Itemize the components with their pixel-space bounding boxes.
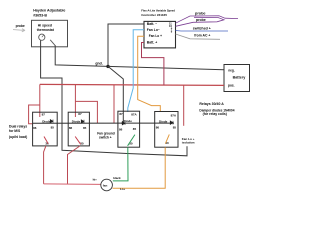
wire thermostat left pin to ground bus [41, 40, 187, 155]
svg-text:#3653-B: #3653-B [33, 13, 47, 17]
wire relay2 30 down [68, 146, 81, 184]
svg-text:pos.: pos. [228, 84, 235, 88]
svg-text:Relays 30/40 A: Relays 30/40 A [199, 102, 224, 106]
svg-text:probe: probe [195, 12, 206, 16]
wire battery pos red bus [40, 84, 224, 85]
wire fan lo+ orange from controller to relay4 [138, 36, 161, 112]
svg-text:86: 86 [33, 126, 37, 130]
svg-text:87: 87 [42, 112, 46, 116]
svg-text:86: 86 [69, 126, 73, 130]
wire red tee to coil line [76, 101, 98, 123]
svg-text:86: 86 [156, 126, 160, 130]
wire relay3 30 green to fan [113, 147, 128, 181]
wire fan lo- blue from controller to relay3 87A [128, 30, 144, 112]
svg-text:87A: 87A [131, 113, 137, 117]
svg-text:85: 85 [173, 126, 177, 130]
wire probe purple loop from pin 10 [176, 17, 225, 26]
svg-text:Battery: Battery [233, 76, 247, 80]
wire red drop to coil line left of relay3 [113, 85, 115, 123]
wire thermostat right pin to gnd node [55, 45, 108, 66]
wire fan hi pink [44, 183, 101, 186]
svg-text:(for relay coils): (for relay coils) [203, 112, 227, 116]
svg-text:85: 85 [133, 127, 137, 131]
diode D4 [170, 121, 173, 125]
wire red drop to relay2 87 [74, 85, 76, 117]
svg-text:Flex-A-Lite Variable Speed: Flex-A-Lite Variable Speed [141, 9, 175, 13]
svg-text:87: 87 [119, 112, 123, 116]
thermostat U1 box [32, 20, 68, 47]
svg-text:(up/hi load): (up/hi load) [9, 135, 27, 139]
wire red drop to relay1 87 [39, 84, 41, 117]
relay K2 box [68, 112, 89, 146]
svg-text:86: 86 [119, 127, 123, 131]
svg-text:switched +: switched + [193, 27, 211, 31]
probe arrow [13, 29, 25, 32]
svg-text:gnd.: gnd. [95, 62, 102, 66]
wire red drop to relay1 86 [29, 105, 40, 124]
svg-text:neg.: neg. [228, 69, 235, 73]
svg-text:30: 30 [80, 141, 84, 145]
wire relay4 30 orange to fan lo [113, 147, 166, 188]
svg-text:Hi speed: Hi speed [38, 23, 52, 27]
svg-text:switch +: switch + [99, 136, 112, 140]
svg-text:Lo+: Lo+ [120, 187, 126, 191]
wire red drop to relay4 85 [183, 85, 185, 126]
controller U2 box [144, 21, 176, 48]
thermostat dial [39, 34, 45, 40]
svg-text:Batt. −: Batt. − [147, 22, 157, 26]
svg-text:Batt. +: Batt. + [147, 40, 157, 44]
svg-text:87A: 87A [171, 114, 177, 118]
diode D2 [81, 120, 84, 123]
svg-text:Hayden Adjustable: Hayden Adjustable [33, 8, 65, 12]
svg-text:Controller #31165: Controller #31165 [141, 13, 167, 17]
wire switched+ blue from pin 9 [176, 30, 229, 33]
wire batt- black from controller to gnd node [108, 24, 144, 66]
wire probe purple upper from pin 11 [176, 16, 239, 23]
svg-text:probe: probe [196, 18, 206, 22]
node gnd junction [106, 65, 109, 68]
wire from AC grey from pin 8 [176, 34, 221, 39]
svg-text:black: black [113, 176, 121, 180]
fan M1 [101, 179, 113, 191]
relay K4 lever orange [165, 134, 169, 143]
svg-text:Fan Lo−: Fan Lo− [147, 28, 160, 32]
diode D3 [122, 121, 125, 125]
relay K3 box [118, 111, 140, 147]
svg-text:hi+: hi+ [93, 178, 98, 182]
relay K3 lever green [128, 135, 135, 146]
relay K1 box [33, 112, 58, 146]
svg-text:85: 85 [51, 126, 55, 130]
svg-text:for M/S: for M/S [9, 129, 21, 133]
relay K2 lever red [75, 137, 80, 145]
diode D1 [50, 120, 53, 123]
svg-text:85: 85 [83, 126, 87, 130]
wire gnd diagonal down to relay3 coil [108, 66, 123, 123]
svg-text:87: 87 [78, 112, 82, 116]
wire controller batt+ crimson to red bus [142, 43, 164, 86]
battery box [224, 65, 250, 92]
svg-text:thermostat: thermostat [37, 28, 55, 32]
relay K4 box [155, 112, 178, 148]
svg-text:probe: probe [16, 24, 25, 28]
svg-text:isolation: isolation [182, 141, 195, 145]
node coil/gnd junction [122, 122, 124, 124]
svg-text:fan: fan [103, 184, 108, 188]
wire relay coil line [33, 122, 174, 124]
wire gnd to battery neg [108, 66, 224, 69]
relay K1 lever red [44, 137, 48, 144]
svg-text:Fan Lo +: Fan Lo + [149, 34, 162, 38]
thermostat switch lever [50, 40, 55, 46]
svg-text:from AC +: from AC + [194, 33, 210, 37]
wire relay1 30 to fan hi [44, 146, 46, 184]
